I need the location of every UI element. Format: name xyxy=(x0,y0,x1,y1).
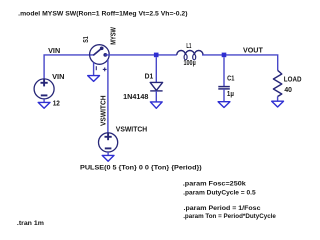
wire VSWITCH to ground xyxy=(107,152,109,155)
svg-text:S1: S1 xyxy=(83,36,90,43)
ground (C1) xyxy=(218,102,230,108)
svg-text:MYSW: MYSW xyxy=(110,27,117,45)
diode D1 xyxy=(150,82,162,91)
wire switch to D1 junction xyxy=(105,54,177,56)
junction (D1 tap) xyxy=(154,53,159,58)
svg-text:D1: D1 xyxy=(145,73,154,80)
svg-text:12: 12 xyxy=(53,100,60,107)
svg-text:VIN: VIN xyxy=(52,74,64,81)
svg-text:.param Ton = Period*DutyCycle: .param Ton = Period*DutyCycle xyxy=(183,213,276,220)
resistor LOAD xyxy=(273,70,281,96)
ground (D1) xyxy=(150,102,162,108)
svg-text:1N4148: 1N4148 xyxy=(123,94,148,101)
svg-text:40: 40 xyxy=(284,87,292,94)
wire D1 to ground xyxy=(155,91,157,102)
wire L1 to LOAD corner xyxy=(202,55,278,70)
svg-text:.model MYSW SW(Ron=1 Roff=1Meg: .model MYSW SW(Ron=1 Roff=1Meg Vt=2.5 Vh… xyxy=(18,10,187,17)
svg-text:VIN: VIN xyxy=(48,48,60,55)
ground (VIN) xyxy=(38,102,50,108)
switch S1 xyxy=(90,45,110,76)
svg-text:.param DutyCycle = 0.5: .param DutyCycle = 0.5 xyxy=(183,189,256,196)
svg-text:LOAD: LOAD xyxy=(284,76,302,83)
wire LOAD to ground xyxy=(277,97,279,102)
svg-text:PULSE(0 5 {Ton} 0 0 {Ton} {Per: PULSE(0 5 {Ton} 0 0 {Ton} {Period}) xyxy=(80,164,202,171)
inductor L1 xyxy=(177,50,203,59)
wire VIN source to ground xyxy=(43,99,45,103)
svg-text:.tran 1m: .tran 1m xyxy=(17,220,44,227)
wire VIN top segment xyxy=(44,55,93,79)
svg-text:1µ: 1µ xyxy=(227,91,234,98)
ground (switch control -) xyxy=(88,76,100,82)
ground (VSWITCH) xyxy=(102,155,114,161)
wire switch to VSWITCH source xyxy=(107,59,109,132)
wire junction to C1 xyxy=(223,57,225,86)
wire C1 to ground xyxy=(223,89,225,102)
svg-text:VSWITCH: VSWITCH xyxy=(116,127,147,134)
svg-text:L1: L1 xyxy=(186,43,191,50)
svg-text:C1: C1 xyxy=(227,76,234,83)
svg-text:.param Period = 1/Fosc: .param Period = 1/Fosc xyxy=(184,205,261,212)
svg-text:100µ: 100µ xyxy=(184,60,196,67)
svg-text:VSWITCH: VSWITCH xyxy=(100,96,107,127)
ground (LOAD) xyxy=(272,101,284,107)
junction (C1 tap) xyxy=(222,53,227,58)
capacitor C1 xyxy=(218,87,230,89)
svg-text:VOUT: VOUT xyxy=(243,48,264,55)
svg-text:.param Fosc=250k: .param Fosc=250k xyxy=(183,180,246,187)
wire junction to D1 xyxy=(155,57,157,82)
voltage source VSWITCH xyxy=(99,133,118,152)
voltage source VIN xyxy=(34,79,54,99)
